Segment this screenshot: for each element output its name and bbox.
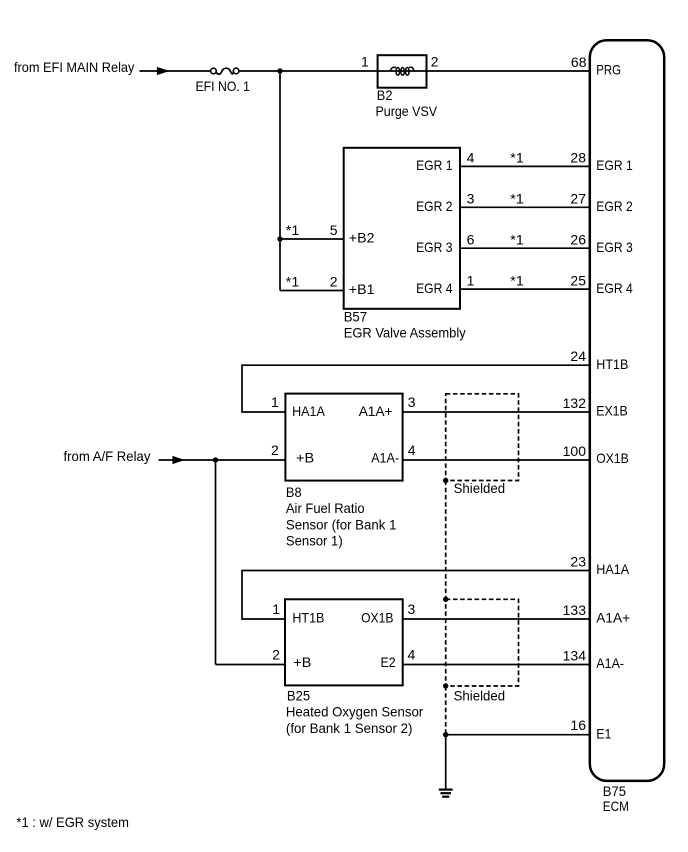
wire: vertical bus to EGR valve bbox=[279, 71, 281, 291]
svg-text:2: 2 bbox=[330, 274, 338, 290]
junction node: +B2 branch bbox=[277, 236, 282, 241]
wire: B8 A1A+ to ECM 132 bbox=[403, 411, 590, 413]
coil: Purge VSV winding bbox=[390, 67, 413, 75]
svg-text:B8: B8 bbox=[286, 484, 302, 500]
wire: B8 A1A- to ECM 100 bbox=[403, 459, 590, 461]
svg-text:Purge VSV: Purge VSV bbox=[376, 103, 438, 119]
svg-text:OX1B: OX1B bbox=[596, 450, 628, 466]
svg-text:+B2: +B2 bbox=[349, 230, 375, 246]
solenoid B2 Purge VSV box bbox=[378, 55, 427, 87]
svg-text:EGR 4: EGR 4 bbox=[416, 280, 453, 296]
wire: B25 E2 to ECM 134 bbox=[403, 664, 590, 666]
svg-text:EGR 2: EGR 2 bbox=[416, 198, 453, 214]
svg-text:ECM: ECM bbox=[603, 798, 629, 814]
svg-text:*1: *1 bbox=[286, 222, 300, 238]
svg-text:26: 26 bbox=[570, 231, 586, 247]
svg-text:Shielded: Shielded bbox=[454, 480, 506, 496]
junction node: E1 ground junction bbox=[443, 732, 448, 737]
svg-text:EGR 1: EGR 1 bbox=[596, 157, 633, 173]
wire: A/F vertical bus bbox=[215, 460, 217, 665]
svg-text:+B1: +B1 bbox=[349, 281, 375, 297]
svg-text:*1: *1 bbox=[510, 231, 524, 247]
svg-text:*1: *1 bbox=[510, 150, 524, 166]
svg-text:(for Bank 1 Sensor 2): (for Bank 1 Sensor 2) bbox=[286, 720, 413, 736]
svg-text:+B: +B bbox=[296, 450, 314, 466]
svg-text:*1: *1 bbox=[286, 274, 300, 290]
svg-text:*1: *1 bbox=[510, 272, 524, 288]
svg-text:2: 2 bbox=[431, 54, 439, 70]
wire: EFI MAIN Relay feed bbox=[140, 70, 212, 72]
wire: fuse to Purge VSV bbox=[239, 70, 378, 72]
svg-text:1: 1 bbox=[361, 54, 369, 70]
svg-text:A1A-: A1A- bbox=[371, 450, 399, 466]
svg-text:A1A-: A1A- bbox=[596, 655, 624, 671]
svg-text:B2: B2 bbox=[377, 87, 393, 103]
wire: E1 to ECM 16 bbox=[446, 734, 590, 736]
svg-text:A1A+: A1A+ bbox=[359, 403, 393, 419]
svg-text:2: 2 bbox=[271, 442, 279, 458]
svg-text:*1 : w/ EGR system: *1 : w/ EGR system bbox=[16, 814, 128, 830]
wire: A/F bus to B25 +B bbox=[216, 664, 286, 666]
svg-text:3: 3 bbox=[408, 601, 416, 617]
svg-text:68: 68 bbox=[571, 54, 587, 70]
svg-text:B75: B75 bbox=[603, 783, 626, 799]
svg-text:HT1B: HT1B bbox=[596, 356, 628, 372]
junction node: B25 shield top bbox=[443, 597, 448, 602]
svg-text:B25: B25 bbox=[287, 688, 310, 704]
wire: shield drain dashed link bbox=[445, 481, 447, 600]
svg-text:Shielded: Shielded bbox=[454, 687, 506, 703]
wire: EGR4 to ECM 25 bbox=[460, 288, 590, 290]
wire: +B1 feed bbox=[280, 290, 344, 292]
svg-text:134: 134 bbox=[563, 648, 587, 664]
svg-text:1: 1 bbox=[467, 272, 475, 288]
sensor B8 box bbox=[285, 394, 402, 481]
svg-text:100: 100 bbox=[563, 443, 587, 459]
svg-text:133: 133 bbox=[563, 602, 587, 618]
svg-text:from EFI MAIN Relay: from EFI MAIN Relay bbox=[14, 59, 134, 75]
svg-text:EX1B: EX1B bbox=[596, 403, 627, 419]
shield: B8 shielded cable bbox=[446, 394, 519, 481]
svg-text:Air Fuel Ratio: Air Fuel Ratio bbox=[286, 500, 365, 516]
svg-text:EGR Valve Assembly: EGR Valve Assembly bbox=[344, 325, 466, 341]
wire: +B2 feed bbox=[280, 238, 344, 240]
svg-text:EFI NO. 1: EFI NO. 1 bbox=[196, 78, 251, 94]
wire: EGR2 to ECM 27 bbox=[460, 206, 590, 208]
svg-text:Sensor (for Bank 1: Sensor (for Bank 1 bbox=[286, 516, 397, 532]
wire: ground drop bbox=[445, 735, 447, 789]
junction node: A/F bus junction bbox=[213, 457, 218, 462]
fuse EFI NO. 1 bbox=[211, 68, 239, 74]
svg-text:EGR 3: EGR 3 bbox=[596, 239, 633, 255]
wire: B8 HA1A to ECM 24 route bbox=[242, 365, 590, 412]
svg-text:from A/F Relay: from A/F Relay bbox=[64, 448, 151, 464]
wire: B25 OX1B to ECM 133 bbox=[403, 618, 590, 620]
wire: EGR1 to ECM 28 bbox=[460, 165, 590, 167]
svg-text:EGR 3: EGR 3 bbox=[416, 239, 453, 255]
svg-text:4: 4 bbox=[467, 150, 475, 166]
svg-text:B57: B57 bbox=[344, 309, 367, 325]
wire: through Purge VSV bbox=[378, 70, 427, 72]
wire: B8 +B feed bbox=[216, 459, 286, 461]
svg-text:132: 132 bbox=[563, 395, 587, 411]
wire: B25 HT1B to ECM 23 route bbox=[242, 571, 590, 620]
svg-text:1: 1 bbox=[272, 601, 280, 617]
svg-text:*1: *1 bbox=[510, 191, 524, 207]
svg-text:HT1B: HT1B bbox=[292, 610, 324, 626]
svg-text:16: 16 bbox=[570, 717, 586, 733]
svg-text:EGR 1: EGR 1 bbox=[416, 157, 453, 173]
svg-text:Sensor 1): Sensor 1) bbox=[286, 533, 343, 549]
svg-text:PRG: PRG bbox=[596, 62, 621, 78]
svg-text:E2: E2 bbox=[381, 654, 396, 670]
svg-text:+B: +B bbox=[293, 654, 311, 670]
svg-text:EGR 2: EGR 2 bbox=[596, 198, 633, 214]
svg-text:HA1A: HA1A bbox=[292, 403, 325, 419]
wire: Purge VSV to ECM PRG bbox=[427, 70, 590, 72]
svg-text:E1: E1 bbox=[596, 725, 611, 741]
svg-text:OX1B: OX1B bbox=[361, 610, 393, 626]
svg-text:24: 24 bbox=[570, 348, 586, 364]
svg-text:EGR 4: EGR 4 bbox=[596, 280, 633, 296]
svg-text:A1A+: A1A+ bbox=[596, 610, 630, 626]
ground bbox=[439, 790, 453, 797]
svg-text:3: 3 bbox=[408, 394, 416, 410]
junction node: top bus junction bbox=[277, 68, 282, 73]
junction node: B25 shield drain bbox=[443, 683, 448, 688]
arrowhead: EFI MAIN Relay feed bbox=[157, 67, 170, 75]
svg-text:5: 5 bbox=[330, 222, 338, 238]
svg-text:4: 4 bbox=[408, 647, 416, 663]
wire: shield drain dashed link to E1 bbox=[445, 686, 447, 735]
wire: EGR3 to ECM 26 bbox=[460, 247, 590, 249]
svg-text:6: 6 bbox=[467, 231, 475, 247]
wire: A/F Relay feed bbox=[159, 459, 216, 461]
junction node: B8 shield drain bbox=[443, 478, 448, 483]
shield: B25 shielded cable bbox=[446, 599, 519, 686]
arrowhead: A/F Relay feed bbox=[172, 456, 185, 464]
svg-text:28: 28 bbox=[570, 150, 586, 166]
svg-text:2: 2 bbox=[272, 647, 280, 663]
svg-text:4: 4 bbox=[408, 442, 416, 458]
EGR valve assembly B57 box bbox=[344, 148, 460, 309]
sensor B25 box bbox=[285, 599, 403, 685]
svg-text:23: 23 bbox=[570, 554, 586, 570]
svg-text:25: 25 bbox=[570, 272, 586, 288]
svg-text:3: 3 bbox=[467, 191, 475, 207]
svg-text:1: 1 bbox=[271, 394, 279, 410]
svg-text:HA1A: HA1A bbox=[596, 561, 629, 577]
svg-text:Heated Oxygen Sensor: Heated Oxygen Sensor bbox=[286, 704, 424, 720]
svg-text:27: 27 bbox=[570, 191, 586, 207]
ECM connector B75 bbox=[590, 40, 664, 781]
